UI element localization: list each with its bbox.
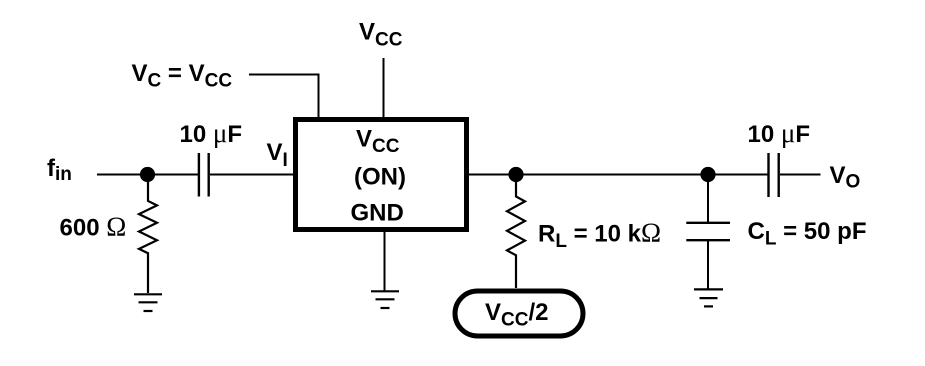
ground GND3 (694, 289, 723, 306)
wire CL to ground (707, 241, 709, 289)
ground GND2 (371, 291, 399, 308)
VCC/2 source stadium (455, 291, 583, 336)
capacitor C2 10uF (output) (769, 153, 779, 197)
node C (junction dot) (700, 167, 715, 182)
ground GND1 (134, 294, 162, 311)
op-amp/buffer box U1 (296, 120, 467, 230)
capacitor CL 50pF (686, 223, 730, 240)
svg-text:10 μF: 10 μF (748, 118, 811, 148)
node B (junction dot) (508, 167, 523, 182)
svg-text:600 Ω: 600 Ω (60, 212, 127, 242)
capacitor C1 10uF (199, 153, 209, 197)
wire fin to node A (97, 174, 150, 176)
svg-text:GND: GND (351, 200, 404, 227)
wire VCC to box top (383, 58, 385, 117)
wire node C to CL (707, 175, 709, 223)
svg-text:(ON): (ON) (354, 163, 406, 190)
resistor R1 600 ohm (139, 180, 157, 293)
wire box output to C2 (469, 174, 768, 176)
wire C1 to box (210, 174, 293, 176)
wire VC to box top (249, 75, 319, 118)
wire box bottom to ground (384, 232, 386, 291)
resistor RL (507, 180, 525, 288)
wire node A to C1 (155, 174, 198, 176)
node A (junction dot) (140, 167, 155, 182)
wire C2 to VO (780, 174, 821, 176)
svg-text:10 μF: 10 μF (180, 118, 243, 148)
